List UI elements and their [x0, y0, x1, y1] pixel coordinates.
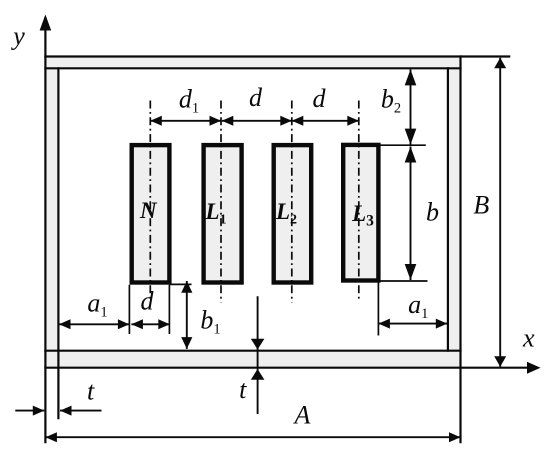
dimension A: [45, 436, 460, 438]
extension line at L3 top: [377, 144, 426, 146]
extension N left edge: [128, 285, 130, 334]
frame right edge (extends down as A extension): [459, 55, 461, 443]
svg-text:d: d: [313, 84, 327, 113]
centerline L2: [291, 101, 293, 303]
dimension d (L2 to L3): [292, 120, 359, 122]
centerline L1: [220, 101, 222, 303]
dimension d (L1 to L2): [222, 120, 292, 122]
svg-text:b2: b2: [381, 85, 401, 117]
svg-text:b: b: [426, 197, 439, 226]
frame inner right line: [447, 67, 449, 352]
svg-text:d: d: [141, 287, 155, 316]
dimension a1 right: [378, 323, 447, 325]
dimension t left: [15, 410, 44, 412]
svg-text:A: A: [293, 401, 311, 430]
svg-text:N: N: [139, 198, 158, 223]
winding N: [132, 145, 170, 282]
dimension d (N width): [131, 323, 169, 325]
svg-text:t: t: [239, 375, 247, 404]
dimension B: [499, 58, 501, 367]
frame top edge (extends right as B extension): [44, 55, 510, 57]
centerline N: [149, 101, 151, 303]
frame inner bottom line: [44, 350, 461, 352]
svg-text:t: t: [87, 377, 95, 406]
svg-text:d: d: [249, 83, 263, 112]
winding L3: [343, 145, 378, 281]
winding L2: [274, 145, 312, 282]
extension b1 at N bottom: [169, 283, 191, 285]
svg-text:B: B: [473, 191, 489, 220]
frame inner top line: [44, 67, 461, 69]
dimension b: [410, 147, 412, 281]
svg-text:d1: d1: [179, 85, 199, 117]
dimension d1 (N to L1): [150, 120, 221, 122]
svg-text:y: y: [10, 22, 25, 51]
dimension t center: [257, 296, 259, 414]
x-axis / frame bottom edge: [44, 367, 527, 369]
dimension b2: [410, 69, 412, 144]
core frame gray ring: [45, 57, 460, 368]
centerline L3: [358, 101, 360, 302]
svg-text:x: x: [522, 324, 535, 353]
svg-text:b1: b1: [200, 306, 220, 338]
dimension b1: [186, 281, 188, 349]
winding L1: [204, 145, 242, 282]
svg-text:a1: a1: [87, 289, 107, 321]
svg-text:a1: a1: [408, 290, 428, 322]
extension L3 right edge: [377, 281, 379, 336]
dimension a1 left: [59, 323, 129, 325]
extension N right edge: [168, 285, 170, 334]
frame inner left line (extends below as t extension): [57, 67, 59, 419]
y-axis: [44, 17, 46, 443]
extension line at L3 bottom: [381, 280, 428, 282]
